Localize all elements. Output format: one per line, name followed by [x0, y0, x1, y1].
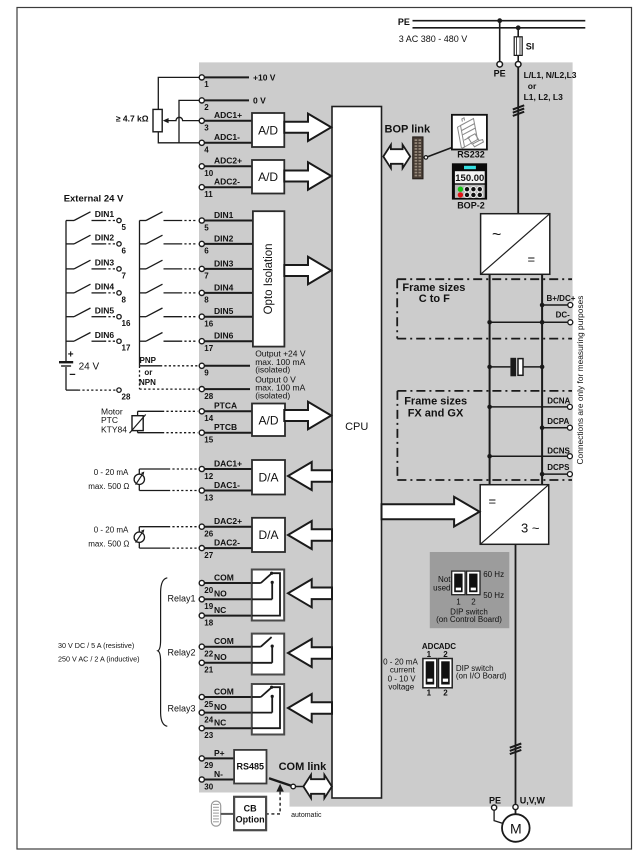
- svg-text:17: 17: [122, 344, 131, 353]
- svg-text:0 - 20 mA: 0 - 20 mA: [94, 468, 129, 477]
- terminal 4 ADC1-: [199, 132, 252, 154]
- svg-text:26: 26: [204, 530, 213, 539]
- CPU U1: [332, 107, 382, 799]
- svg-text:COM: COM: [214, 636, 234, 646]
- svg-text:DIN5: DIN5: [214, 306, 234, 316]
- svg-text:DCNS: DCNS: [547, 447, 570, 456]
- svg-text:max. 500 Ω: max. 500 Ω: [88, 539, 129, 548]
- wire DC bus negative: [489, 274, 491, 484]
- svg-text:+10 V: +10 V: [253, 73, 276, 83]
- terminal 1 +10 V: [199, 73, 276, 90]
- svg-text:DIN6: DIN6: [95, 330, 115, 340]
- svg-text:Frame sizes: Frame sizes: [404, 395, 467, 407]
- svg-text:DAC2-: DAC2-: [214, 538, 240, 548]
- svg-text:DIN1: DIN1: [95, 209, 115, 219]
- terminal 22 COM: [199, 636, 252, 658]
- label 0-20 mA DAC2: [88, 526, 129, 549]
- svg-text:DAC1-: DAC1-: [214, 480, 240, 490]
- svg-text:0 - 20 mA: 0 - 20 mA: [94, 526, 129, 535]
- terminal 19 NO: [199, 589, 252, 611]
- svg-text:DIN4: DIN4: [214, 282, 234, 292]
- wire DC bus positive: [541, 274, 543, 484]
- svg-text:2: 2: [443, 688, 448, 697]
- switch DIN2 input: [140, 235, 198, 244]
- svg-text:9: 9: [204, 369, 209, 378]
- svg-text:=: =: [489, 494, 497, 509]
- wire 0V down: [179, 100, 199, 142]
- svg-text:PE: PE: [489, 796, 501, 806]
- label output 0 V: [255, 374, 305, 400]
- svg-text:7: 7: [204, 272, 209, 281]
- node BOP connector pin: [424, 156, 428, 160]
- label frame sizes FX and GX: [404, 395, 467, 419]
- svg-text:DCPA: DCPA: [547, 417, 569, 426]
- wire battery to terminal 28: [66, 367, 131, 402]
- svg-text:30 V DC / 5 A (resistive): 30 V DC / 5 A (resistive): [58, 641, 134, 650]
- svg-text:COM: COM: [214, 686, 234, 696]
- label DIP switch IO board: [456, 664, 507, 681]
- double arrow COM link: [303, 775, 332, 798]
- arrow CPU to DAC2: [288, 521, 332, 549]
- terminal 3 ADC1+: [199, 110, 252, 132]
- wire NPN rail dashed: [139, 366, 141, 389]
- wire motor phase line: [515, 544, 517, 804]
- label pins 1 2 control: [456, 598, 476, 607]
- label pins 1 2 top: [427, 650, 449, 659]
- wire UVW to motor: [515, 810, 517, 815]
- svg-text:50 Hz: 50 Hz: [483, 591, 504, 600]
- label PNP or NPN: [139, 356, 157, 387]
- svg-text:B+/DC+: B+/DC+: [547, 294, 576, 303]
- switch DIN5 input: [140, 308, 198, 317]
- RS485 interface block: [234, 750, 266, 784]
- svg-text:NO: NO: [214, 589, 227, 599]
- svg-text:current: current: [390, 665, 416, 674]
- DIP switch control board panel: [430, 552, 510, 628]
- svg-text:Relay1: Relay1: [168, 593, 196, 603]
- svg-text:ADC1+: ADC1+: [214, 110, 242, 120]
- terminal 24 NO: [199, 702, 252, 724]
- switch DIN4 input: [140, 284, 198, 293]
- D/A converter DAC2: [252, 518, 285, 552]
- terminal 11 ADC2-: [199, 177, 252, 199]
- arrow ADC1 to CPU: [284, 114, 331, 141]
- svg-text:21: 21: [204, 666, 213, 675]
- switch DIN3 input: [140, 260, 198, 269]
- wire PNP to terminal 9: [140, 365, 198, 367]
- svg-text:4: 4: [204, 146, 209, 155]
- terminal 17 DIN6: [199, 331, 252, 353]
- switch DIN3 external: [66, 258, 127, 281]
- terminal 25 COM: [199, 686, 252, 708]
- svg-text:17: 17: [204, 344, 213, 353]
- A/D converter ADC2: [252, 160, 284, 194]
- terminal DCNS: [487, 447, 572, 459]
- terminal 7 DIN3: [199, 258, 252, 280]
- double arrow BOP link: [383, 145, 410, 168]
- relay contact K2 Relay2: [252, 634, 284, 675]
- svg-text:NC: NC: [214, 605, 226, 615]
- switch DIN4 external: [66, 282, 127, 305]
- terminal 29 P+: [199, 748, 234, 770]
- arrow ADC2 to CPU: [284, 162, 331, 189]
- svg-text:25: 25: [204, 700, 213, 709]
- svg-text:C to F: C to F: [419, 293, 450, 305]
- cable slash marks input: [513, 105, 524, 116]
- svg-text:1: 1: [204, 80, 209, 89]
- svg-text:DCPS: DCPS: [547, 463, 570, 472]
- label frame sizes C to F: [402, 282, 465, 305]
- svg-text:DIN2: DIN2: [214, 233, 234, 243]
- switch DIN5 external: [66, 305, 131, 328]
- terminal 18 NC: [199, 605, 252, 627]
- svg-text:(isolated): (isolated): [255, 390, 290, 400]
- svg-text:16: 16: [204, 320, 213, 329]
- svg-text:Opto Isolation: Opto Isolation: [263, 243, 275, 314]
- terminal 28 output: [199, 387, 250, 401]
- svg-text:3: 3: [204, 124, 209, 133]
- svg-text:NO: NO: [214, 652, 227, 662]
- svg-text:External 24 V: External 24 V: [64, 193, 124, 204]
- wiper arrowhead: [163, 118, 169, 123]
- svg-text:150.00: 150.00: [455, 173, 484, 184]
- relay contact K3 Relay3: [252, 684, 284, 735]
- relay contact K1 Relay1: [252, 570, 284, 621]
- svg-text:voltage: voltage: [388, 682, 414, 691]
- label output +24 V: [255, 349, 306, 375]
- terminal 6 DIN2: [199, 233, 252, 255]
- terminal 8 DIN4: [199, 282, 252, 304]
- svg-text:Option: Option: [236, 814, 265, 824]
- svg-text:DIN3: DIN3: [214, 258, 234, 268]
- svg-text:60 Hz: 60 Hz: [483, 570, 504, 579]
- terminal B+/DC+: [540, 294, 576, 308]
- cable slash marks motor: [510, 744, 522, 755]
- svg-text:or: or: [528, 81, 537, 91]
- svg-text:PE: PE: [494, 69, 506, 79]
- svg-text:A/D: A/D: [258, 124, 278, 138]
- svg-text:1: 1: [427, 650, 432, 659]
- svg-text:13: 13: [204, 493, 213, 502]
- terminal 15 PTCB: [199, 422, 252, 444]
- wire pot bottom to terminal 4: [158, 132, 199, 143]
- arrow CPU to DAC1: [288, 462, 332, 490]
- svg-text:DIN6: DIN6: [214, 331, 234, 341]
- svg-text:8: 8: [204, 296, 209, 305]
- wire to fuse: [517, 28, 519, 37]
- svg-text:10: 10: [204, 169, 213, 178]
- svg-text:2: 2: [204, 103, 209, 112]
- terminal 2 0 V: [199, 96, 266, 113]
- frame sizes FX and GX boundary: [397, 391, 572, 480]
- svg-text:PTCB: PTCB: [214, 422, 237, 432]
- meter DAC1: [134, 472, 144, 485]
- svg-text:(on Control Board): (on Control Board): [436, 615, 502, 624]
- svg-text:PTCA: PTCA: [214, 401, 237, 411]
- svg-text:1: 1: [427, 688, 432, 697]
- wire wiper with hop: [167, 117, 200, 120]
- label DIP switch control board: [436, 607, 502, 624]
- svg-text:PNP: PNP: [140, 356, 157, 365]
- terminal U V W: [513, 796, 546, 810]
- svg-text:ADC2-: ADC2-: [214, 177, 240, 187]
- terminal 14 PTCA: [199, 401, 252, 423]
- svg-text:max. 500 Ω: max. 500 Ω: [88, 482, 129, 491]
- svg-text:15: 15: [204, 436, 213, 445]
- DIP switch S1-1: [452, 571, 465, 595]
- terminal DCPA: [540, 417, 573, 430]
- svg-text:≥ 4.7 kΩ: ≥ 4.7 kΩ: [116, 114, 149, 124]
- svg-text:NPN: NPN: [139, 378, 156, 387]
- svg-text:−: −: [69, 369, 75, 381]
- terminal 9 output: [199, 363, 250, 377]
- wire PTCA: [138, 411, 198, 415]
- terminal 12 DAC1+: [199, 458, 252, 480]
- inverter grey body: [199, 62, 573, 806]
- svg-text:A/D: A/D: [258, 170, 278, 184]
- wire connector to CB option: [221, 813, 234, 815]
- svg-text:250 V AC / 2 A (inductive): 250 V AC / 2 A (inductive): [58, 655, 140, 664]
- arrow opto isolation to CPU: [284, 257, 331, 284]
- svg-text:M: M: [510, 821, 522, 837]
- svg-text:3 ~: 3 ~: [521, 521, 540, 536]
- svg-text:CB: CB: [244, 804, 257, 814]
- svg-text:24 V: 24 V: [79, 362, 100, 373]
- svg-text:22: 22: [204, 650, 213, 659]
- svg-text:~: ~: [492, 227, 501, 244]
- junction on mains bus: [516, 25, 521, 30]
- terminal 20 COM: [199, 572, 252, 594]
- label Not used: [433, 575, 451, 593]
- arrow CPU to relay1: [288, 579, 332, 607]
- svg-text:DIN3: DIN3: [95, 258, 115, 268]
- svg-text:RS485: RS485: [237, 761, 265, 771]
- arrow CPU to relay2: [288, 639, 332, 667]
- svg-text:KTY84: KTY84: [101, 425, 127, 435]
- svg-text:DIN5: DIN5: [95, 305, 115, 315]
- svg-text:DCNA: DCNA: [547, 397, 570, 406]
- svg-text:7: 7: [122, 271, 127, 280]
- inverter U3: [480, 485, 549, 545]
- motor M1: [502, 814, 530, 842]
- svg-text:PE: PE: [398, 17, 410, 27]
- label 0-10 V voltage: [388, 674, 417, 691]
- svg-text:ADC1-: ADC1-: [214, 132, 240, 142]
- capacitor DC link C1: [487, 358, 544, 377]
- wire mains input line: [517, 67, 519, 214]
- wire meter loop DAC2: [139, 527, 197, 548]
- wire +10V to pot top: [158, 77, 199, 109]
- switch DIN1 input: [140, 212, 198, 221]
- switch DIN6 external: [66, 330, 131, 353]
- svg-text:RS232: RS232: [457, 149, 485, 159]
- terminal 10 ADC2+: [199, 156, 252, 178]
- svg-text:6: 6: [204, 247, 209, 256]
- DIP switch S2-1: [423, 659, 437, 688]
- wire mains bus: [413, 27, 586, 29]
- node COM link: [291, 784, 296, 789]
- svg-text:8: 8: [122, 295, 127, 304]
- svg-text:30: 30: [204, 782, 213, 791]
- svg-text:U,V,W: U,V,W: [520, 796, 546, 806]
- RS232 adapter icon: [452, 115, 487, 150]
- wire NPN to terminal 28: [140, 388, 198, 390]
- wire automatic dashed: [267, 792, 280, 814]
- svg-text:ADC2+: ADC2+: [214, 156, 242, 166]
- svg-text:Connections are only for measu: Connections are only for measuring purpo…: [575, 296, 585, 465]
- fuse SI: [514, 37, 534, 56]
- junction on PE bus: [497, 18, 502, 23]
- svg-text:23: 23: [204, 731, 213, 740]
- arrow PTC A/D to CPU: [284, 402, 331, 429]
- svg-text:6: 6: [122, 246, 127, 255]
- svg-text:CPU: CPU: [345, 421, 368, 433]
- wire PE bus top: [413, 20, 586, 22]
- terminal DCPS: [540, 463, 573, 477]
- svg-text:16: 16: [122, 319, 131, 328]
- brace relay group: [158, 578, 168, 727]
- BOP-2 operator panel: [452, 163, 487, 199]
- svg-text:+: +: [68, 350, 74, 361]
- svg-text:L/L1, N/L2,L3: L/L1, N/L2,L3: [524, 70, 577, 80]
- terminal 16 DIN5: [199, 306, 252, 328]
- svg-text:DIN2: DIN2: [95, 233, 115, 243]
- svg-text:automatic: automatic: [291, 812, 322, 819]
- label 0-20 mA DAC1: [88, 468, 129, 491]
- svg-text:A/D: A/D: [258, 414, 278, 428]
- svg-text:DC-: DC-: [556, 310, 571, 319]
- svg-text:(on I/O Board): (on I/O Board): [456, 672, 507, 681]
- svg-text:DAC2+: DAC2+: [214, 516, 242, 526]
- rectifier U2: [481, 214, 550, 275]
- svg-text:19: 19: [204, 602, 213, 611]
- svg-text:1: 1: [456, 598, 461, 607]
- svg-text:used: used: [433, 583, 450, 592]
- arrow CPU to inverter: [382, 497, 480, 527]
- svg-text:P+: P+: [214, 748, 225, 758]
- frame sizes C to F boundary: [397, 279, 572, 338]
- svg-text:COM link: COM link: [279, 761, 328, 773]
- terminal 27 DAC2-: [199, 538, 252, 560]
- svg-text:D/A: D/A: [258, 471, 278, 485]
- svg-text:NC: NC: [214, 718, 226, 728]
- svg-text:14: 14: [204, 414, 213, 423]
- svg-text:N-: N-: [214, 769, 223, 779]
- terminal 26 DAC2+: [199, 516, 252, 538]
- svg-text:=: =: [528, 252, 536, 267]
- connector CB ribbon: [211, 801, 220, 826]
- opto isolation block: [253, 211, 285, 346]
- svg-text:20: 20: [204, 586, 213, 595]
- svg-text:28: 28: [204, 392, 213, 401]
- terminal 21 NO: [199, 652, 252, 674]
- label Motor PTC KTY84: [101, 406, 127, 434]
- switch COM link blade: [269, 778, 291, 786]
- switch DIN6 input: [140, 333, 198, 342]
- wire meter loop DAC1: [139, 469, 197, 491]
- wire fuse to terminal: [517, 55, 519, 61]
- label relay ratings: [58, 641, 140, 663]
- label pins 1 2 bottom: [427, 688, 449, 697]
- svg-text:PTC: PTC: [101, 415, 118, 425]
- svg-text:Relay2: Relay2: [168, 648, 196, 658]
- potentiometer R1: [153, 109, 162, 131]
- terminal PE motor: [489, 796, 501, 811]
- A/D converter ADC1: [252, 113, 284, 147]
- svg-text:0 V: 0 V: [253, 96, 266, 106]
- CB option module: [234, 797, 266, 830]
- svg-text:Relay3: Relay3: [168, 704, 196, 714]
- svg-text:D/A: D/A: [258, 528, 278, 542]
- terminal DCNA: [487, 397, 572, 410]
- svg-text:27: 27: [204, 551, 213, 560]
- wire PTCB: [138, 431, 198, 433]
- svg-text:DIN1: DIN1: [214, 210, 234, 220]
- terminal PE: [497, 62, 503, 68]
- terminal 5 DIN1: [199, 210, 252, 232]
- svg-text:5: 5: [204, 223, 209, 232]
- svg-text:2: 2: [471, 598, 476, 607]
- svg-text:29: 29: [204, 761, 213, 770]
- svg-text:5: 5: [122, 223, 127, 232]
- svg-text:11: 11: [204, 190, 213, 199]
- switch DIN2 external: [66, 233, 127, 256]
- svg-text:DAC1+: DAC1+: [214, 458, 242, 468]
- DIP switch S1-2: [467, 571, 480, 595]
- wire rail column2: [139, 221, 141, 366]
- thermistor PTC: [130, 415, 146, 434]
- meter DAC2: [134, 529, 144, 542]
- svg-text:2: 2: [443, 650, 448, 659]
- svg-text:18: 18: [204, 618, 213, 627]
- svg-text:12: 12: [204, 472, 213, 481]
- A/D converter PTC: [252, 404, 285, 437]
- svg-text:L1, L2, L3: L1, L2, L3: [524, 92, 563, 102]
- svg-text:(isolated): (isolated): [255, 365, 290, 375]
- BOP link connector: [413, 137, 423, 179]
- svg-text:SI: SI: [526, 42, 535, 52]
- svg-text:28: 28: [122, 393, 131, 402]
- arrow CPU to relay3: [288, 694, 332, 722]
- switch DIN1 external: [66, 209, 127, 232]
- D/A converter DAC1: [252, 460, 285, 495]
- svg-text:FX and GX: FX and GX: [408, 407, 464, 419]
- svg-text:or: or: [144, 368, 152, 377]
- battery 24 V: [59, 350, 100, 381]
- DIP switch S2-2: [439, 659, 453, 688]
- wire connector to RS232: [428, 148, 452, 157]
- svg-text:BOP-2: BOP-2: [457, 200, 485, 210]
- terminal DC-: [487, 310, 572, 325]
- terminal 13 DAC1-: [199, 480, 252, 502]
- terminal L/L1: [515, 62, 521, 68]
- terminal 23 NC: [199, 718, 252, 740]
- wire rail column1: [65, 221, 67, 362]
- arrowhead automatic: [276, 784, 283, 792]
- svg-text:DIN4: DIN4: [95, 282, 115, 292]
- label ADC ADC: [422, 642, 456, 651]
- terminal 30 N-: [199, 769, 234, 791]
- label 0-20 mA current: [383, 657, 418, 674]
- wire PE to motor: [494, 810, 503, 823]
- svg-text:24: 24: [204, 715, 213, 724]
- svg-text:NO: NO: [214, 702, 227, 712]
- svg-text:COM: COM: [214, 572, 234, 582]
- wire node to double arrow: [296, 786, 304, 788]
- svg-text:BOP link: BOP link: [385, 124, 432, 136]
- wire PE drop: [499, 21, 501, 62]
- svg-text:3 AC 380 - 480 V: 3 AC 380 - 480 V: [399, 34, 468, 44]
